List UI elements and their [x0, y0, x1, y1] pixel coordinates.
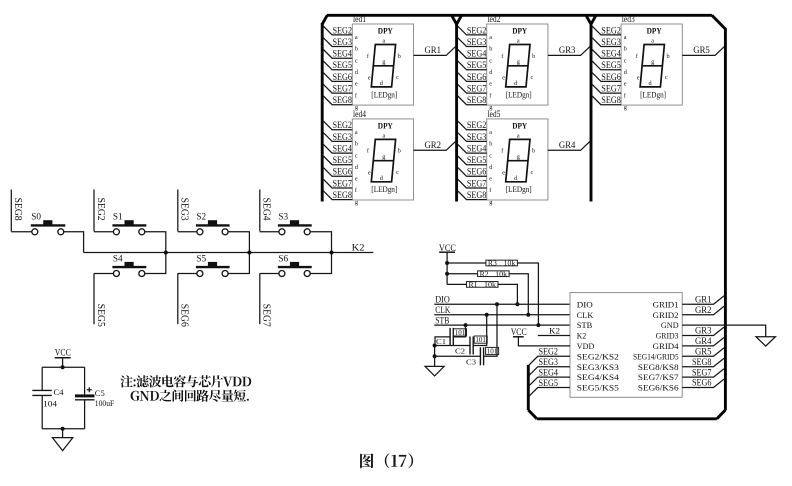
svg-text:c: c: [489, 57, 492, 64]
svg-text:b: b: [355, 46, 358, 53]
svg-text:DPY: DPY: [378, 122, 393, 131]
junction C2-CLK: [485, 313, 489, 317]
wire - led5 pin d net SEG5 bus tap: [458, 156, 487, 165]
svg-text:SEG4: SEG4: [539, 367, 559, 377]
note text line 1: [120, 375, 251, 387]
junction R3-STB: [536, 323, 540, 327]
svg-text:b: b: [532, 53, 535, 60]
svg-text:b: b: [398, 53, 401, 60]
bus segment mini bus left of IC bottom: [527, 365, 530, 410]
svg-text:e: e: [355, 81, 358, 88]
svg-text:DPY: DPY: [512, 122, 527, 131]
caption 图（17）: [360, 453, 413, 468]
bus segment bus1 vertical: [321, 23, 324, 202]
svg-text:SEG2: SEG2: [601, 25, 621, 35]
svg-text:[LEDgn]: [LEDgn]: [371, 185, 397, 194]
svg-text:101: 101: [455, 329, 466, 337]
svg-text:c: c: [665, 74, 668, 81]
wire - cap ground rail: [434, 346, 436, 367]
wire - keypad column net SEG3 vertical: [177, 190, 179, 232]
svg-text:10k: 10k: [484, 281, 497, 289]
svg-text:SEG8: SEG8: [467, 190, 487, 200]
wire - led1 pin c net SEG4 bus tap: [323, 50, 352, 59]
svg-text:GR4: GR4: [559, 140, 576, 150]
svg-text:S5: S5: [196, 253, 206, 263]
svg-text:c: c: [396, 169, 399, 176]
wire - led1 pin e net SEG6 bus tap: [323, 73, 352, 82]
wire - S3 to K2 junction: [310, 232, 331, 253]
wire - keypad column net SEG6 vertical: [177, 273, 179, 324]
svg-text:a: a: [517, 38, 520, 45]
wire - led3 pin c net SEG4 bus tap: [592, 50, 621, 59]
svg-text:SEG6: SEG6: [179, 304, 190, 327]
junction S1-S4 on K2: [164, 251, 168, 255]
svg-text:SEG6: SEG6: [467, 167, 487, 177]
junction C1-STB: [464, 323, 468, 327]
svg-text:SEG7: SEG7: [261, 304, 272, 327]
svg-text:GRID4: GRID4: [653, 341, 680, 351]
svg-text:DIO: DIO: [577, 299, 593, 309]
svg-text:S2: S2: [196, 212, 206, 222]
wire - SEG8 to S0: [11, 231, 32, 233]
wire - net GR1 IC pin to right bus: [682, 296, 724, 304]
svg-text:led5: led5: [487, 109, 500, 119]
wire - led2 pin g net SEG8 bus tap: [458, 96, 487, 105]
svg-text:a: a: [489, 34, 492, 41]
svg-text:GR3: GR3: [559, 45, 576, 55]
pushbutton S3: [278, 224, 312, 226]
capacitor C4 104: [41, 367, 43, 390]
junction S3-S6 on K2: [330, 251, 334, 255]
svg-text:SEG3: SEG3: [467, 132, 487, 142]
svg-text:SEG4: SEG4: [333, 49, 353, 59]
wire - keypad column net SEG5 vertical: [93, 273, 95, 324]
svg-text:a: a: [383, 133, 386, 140]
svg-text:g: g: [651, 59, 654, 66]
display module led3 body: [621, 24, 682, 105]
wire - led3 pin b net SEG3 bus tap: [592, 38, 621, 47]
svg-text:b: b: [532, 148, 535, 155]
wire - net SEG6 IC pin to right bus: [682, 379, 724, 387]
resistor R2 10k pull-up CLK: [447, 273, 478, 275]
svg-text:[LEDgn]: [LEDgn]: [506, 90, 532, 99]
wire - keypad column net SEG2 vertical: [93, 190, 95, 232]
capacitor C5 100uF electrolytic: [84, 367, 86, 394]
svg-text:VCC: VCC: [55, 347, 71, 357]
wire - S1 to K2 junction: [145, 232, 166, 253]
wire - led2 pin c net SEG4 bus tap: [458, 50, 487, 59]
svg-text:led2: led2: [487, 14, 500, 24]
wire - led4 pin f net SEG7 bus tap: [323, 179, 352, 188]
svg-text:e: e: [368, 75, 371, 82]
svg-text:c: c: [489, 152, 492, 159]
svg-text:10k: 10k: [495, 270, 508, 278]
IC U1 LED display driver body with pin labels: [570, 293, 682, 398]
wire - net GR2 IC pin to right bus: [682, 306, 724, 314]
svg-text:SEG5: SEG5: [333, 155, 353, 165]
wire - net CLK: [434, 314, 570, 316]
wire - led3 pin a net SEG2 bus tap: [592, 26, 621, 35]
svg-text:b: b: [624, 46, 627, 53]
wire - led1 pin b net SEG3 bus tap: [323, 38, 352, 47]
svg-text:SEG2: SEG2: [539, 347, 559, 357]
svg-text:SEG2: SEG2: [95, 198, 106, 221]
svg-text:SEG8: SEG8: [12, 198, 23, 221]
svg-text:a: a: [651, 38, 654, 45]
display module led2 body: [487, 24, 548, 105]
wire - keypad column net SEG4 vertical: [259, 190, 261, 232]
svg-text:SEG8/KS8: SEG8/KS8: [638, 362, 679, 372]
wire - S6 to K2 junction: [310, 253, 331, 274]
svg-text:R2: R2: [480, 270, 490, 278]
svg-text:SEG2: SEG2: [333, 25, 353, 35]
svg-text:SEG2: SEG2: [467, 25, 487, 35]
svg-text:SEG5: SEG5: [601, 60, 621, 70]
svg-text:DPY: DPY: [647, 27, 662, 36]
svg-text:SEG4: SEG4: [467, 143, 487, 153]
svg-text:SEG5: SEG5: [95, 304, 106, 327]
svg-text:c: c: [396, 74, 399, 81]
svg-text:a: a: [489, 129, 492, 136]
svg-text:K2: K2: [549, 326, 560, 336]
ground (caps): [425, 366, 444, 376]
wire - column to S1: [94, 231, 113, 233]
svg-text:g: g: [355, 199, 358, 206]
svg-text:GR3: GR3: [695, 326, 712, 336]
svg-text:SEG3: SEG3: [601, 37, 621, 47]
wire - led4 pin d net SEG5 bus tap: [323, 156, 352, 165]
wire - column to S6: [260, 273, 279, 275]
junction rail-C2: [433, 344, 437, 348]
wire - led1 pin a net SEG2 bus tap: [323, 26, 352, 35]
svg-text:GR1: GR1: [695, 295, 712, 305]
wire - ground rail to C3: [435, 355, 481, 357]
wire - led3 pin d net SEG5 bus tap: [592, 61, 621, 70]
junction VCC-R3: [445, 261, 449, 265]
svg-text:c: c: [531, 169, 534, 176]
bus segment bus3 vertical: [590, 23, 593, 202]
svg-text:GR1: GR1: [425, 45, 442, 55]
svg-text:SEG7/KS7: SEG7/KS7: [638, 372, 679, 382]
svg-text:a: a: [383, 38, 386, 45]
svg-text:SEG4/KS4: SEG4/KS4: [577, 372, 620, 382]
svg-text:e: e: [368, 169, 371, 176]
svg-text:SEG4: SEG4: [601, 49, 621, 59]
wire - net GR4 IC pin to right bus: [682, 338, 724, 346]
pushbutton S0: [31, 224, 66, 226]
ground (IC GND): [756, 337, 776, 346]
junction VCC-R2: [445, 272, 449, 276]
wire - led5 common pin net GR4 bus entry: [548, 142, 590, 151]
svg-text:CLK: CLK: [577, 310, 594, 320]
svg-text:STB: STB: [577, 320, 593, 330]
svg-text:SEG5/KS5: SEG5/KS5: [577, 383, 620, 393]
wire - IC GND pin: [682, 325, 766, 337]
svg-text:c: c: [355, 152, 358, 159]
wire - led3 common pin net GR5 bus entry: [682, 47, 724, 56]
wire - led2 pin a net SEG2 bus tap: [458, 26, 487, 35]
svg-text:SEG6/KS6: SEG6/KS6: [638, 383, 679, 393]
svg-text:C5: C5: [95, 389, 105, 398]
svg-text:b: b: [667, 53, 670, 60]
svg-text:100uF: 100uF: [95, 399, 115, 408]
svg-text:S1: S1: [113, 212, 123, 222]
wire - led4 pin c net SEG4 bus tap: [323, 144, 352, 153]
wire - net DIO: [434, 303, 570, 305]
svg-text:GR5: GR5: [693, 45, 710, 55]
svg-text:K2: K2: [352, 243, 365, 253]
svg-text:c: c: [624, 57, 627, 64]
svg-text:DPY: DPY: [512, 27, 527, 36]
wire - led2 pin e net SEG6 bus tap: [458, 73, 487, 82]
svg-text:e: e: [502, 169, 505, 176]
svg-text:SEG4: SEG4: [467, 49, 487, 59]
wire - net SEG3 IC tap to bottom bus: [529, 367, 570, 376]
ground (filter): [52, 438, 72, 451]
capacitor C3 101 on DIO: [479, 347, 481, 365]
wire - led4 common pin net GR2 bus entry: [414, 142, 456, 151]
svg-text:C2: C2: [455, 347, 465, 356]
svg-text:DPY: DPY: [378, 27, 393, 36]
svg-text:a: a: [355, 129, 358, 136]
svg-text:SEG5: SEG5: [539, 378, 559, 388]
wire - filter bottom rail: [42, 428, 84, 430]
svg-text:SEG6: SEG6: [333, 72, 353, 82]
svg-text:SEG6: SEG6: [333, 167, 353, 177]
svg-text:GR4: GR4: [695, 336, 712, 346]
note text line 2: [131, 390, 249, 402]
junction C3-DIO: [495, 302, 499, 306]
svg-text:SEG2: SEG2: [467, 120, 487, 130]
svg-text:b: b: [398, 148, 401, 155]
wire - C1 lead to ground rail: [435, 337, 450, 346]
junction rail-C3: [433, 354, 437, 358]
svg-text:a: a: [355, 34, 358, 41]
svg-text:VCC: VCC: [439, 243, 456, 253]
wire - net STB: [434, 324, 570, 326]
wire - led2 pin d net SEG5 bus tap: [458, 61, 487, 70]
wire - led5 pin e net SEG6 bus tap: [458, 168, 487, 177]
svg-text:SEG8: SEG8: [601, 95, 621, 105]
svg-text:DIO: DIO: [435, 295, 450, 305]
wire - keypad column net SEG8 vertical: [10, 190, 12, 232]
wire - column to S5: [178, 273, 197, 275]
wire - column to S3: [260, 231, 279, 233]
svg-text:SEG5: SEG5: [467, 60, 487, 70]
svg-text:SEG6: SEG6: [601, 72, 621, 82]
wire - led5 pin g net SEG8 bus tap: [458, 191, 487, 200]
svg-text:GR2: GR2: [695, 305, 712, 315]
wire - led4 pin a net SEG2 bus tap: [323, 121, 352, 130]
svg-text:SEG6: SEG6: [692, 378, 712, 388]
wire - ground stub: [62, 429, 64, 438]
bus segment right outer bus vertical: [724, 28, 727, 410]
wire - led2 common pin net GR3 bus entry: [548, 47, 590, 56]
svg-text:b: b: [489, 141, 492, 148]
wire - S5 to K2 junction: [228, 253, 249, 274]
wire - net GR5 IC pin to right bus: [682, 348, 724, 356]
svg-text:led3: led3: [622, 14, 635, 24]
svg-text:SEG4: SEG4: [261, 198, 272, 222]
svg-text:SEG3: SEG3: [333, 37, 353, 47]
wire - keypad column net SEG7 vertical: [259, 273, 261, 324]
svg-text:C1: C1: [436, 337, 446, 346]
pushbutton S4: [112, 266, 146, 268]
wire - net SEG4 IC tap to bottom bus: [529, 377, 570, 386]
svg-text:e: e: [637, 75, 640, 82]
svg-text:GRID2: GRID2: [653, 310, 679, 320]
svg-text:SEG6: SEG6: [467, 72, 487, 82]
svg-text:SEG3/KS3: SEG3/KS3: [577, 362, 620, 372]
svg-text:SEG7: SEG7: [333, 83, 353, 93]
wire - S2 to K2 junction: [228, 232, 249, 253]
svg-text:c: c: [531, 74, 534, 81]
wire - led2 pin b net SEG3 bus tap: [458, 38, 487, 47]
svg-text:SEG7: SEG7: [467, 178, 487, 188]
wire - net K2 horizontal: [84, 252, 374, 254]
svg-text:led1: led1: [353, 14, 366, 24]
wire - bus3 top peak diagonals: [586, 15, 596, 24]
svg-text:SEG8: SEG8: [692, 357, 712, 367]
wire - led1 pin d net SEG5 bus tap: [323, 61, 352, 70]
svg-text:SEG5: SEG5: [467, 155, 487, 165]
wire - top bus right corner diagonal: [712, 15, 726, 29]
capacitor C2 101 on CLK: [469, 337, 471, 355]
wire - led1 pin f net SEG7 bus tap: [323, 84, 352, 93]
svg-text:SEG3: SEG3: [467, 37, 487, 47]
wire - top bus left corner diagonal: [322, 15, 327, 24]
pushbutton S2: [196, 224, 230, 226]
wire - top bus horizontal: [327, 14, 712, 17]
svg-text:[LEDgn]: [LEDgn]: [506, 185, 532, 194]
svg-text:g: g: [382, 153, 385, 160]
junction VCC-rail: [61, 365, 65, 369]
svg-text:GRID3: GRID3: [656, 332, 679, 341]
wire - led3 pin f net SEG7 bus tap: [592, 84, 621, 93]
wire - net K2 to IC pin K2: [538, 335, 570, 337]
svg-text:S4: S4: [113, 253, 123, 263]
wire - net GR3 IC pin to right bus: [682, 327, 724, 335]
junction rail-ground: [61, 427, 65, 431]
svg-text:g: g: [517, 153, 520, 160]
svg-text:g: g: [489, 199, 492, 206]
svg-text:a: a: [624, 34, 627, 41]
svg-text:g: g: [517, 59, 520, 66]
wire - net SEG5 IC tap to bottom bus: [529, 388, 570, 397]
wire - led4 pin g net SEG8 bus tap: [323, 191, 352, 200]
svg-text:SEG7: SEG7: [692, 367, 712, 377]
wire - led5 pin c net SEG4 bus tap: [458, 144, 487, 153]
wire - S4 to K2 junction: [145, 253, 166, 274]
junction R2-CLK: [526, 313, 530, 317]
junction S2-S5 on K2: [247, 251, 251, 255]
wire - led3 pin g net SEG8 bus tap: [592, 96, 621, 105]
resistor R3 10k pull-up STB: [447, 262, 486, 264]
svg-text:SEG8: SEG8: [333, 95, 353, 105]
wire - filter top rail: [42, 366, 84, 368]
svg-text:SEG8: SEG8: [333, 190, 353, 200]
wire - led5 pin a net SEG2 bus tap: [458, 121, 487, 130]
svg-text:SEG7: SEG7: [601, 83, 621, 93]
wire - S0 to K2 line: [64, 232, 84, 253]
svg-text:e: e: [624, 81, 627, 88]
svg-text:K2: K2: [577, 332, 587, 341]
svg-text:STB: STB: [435, 316, 449, 326]
pushbutton S5: [196, 266, 230, 268]
display module led5 body: [487, 119, 548, 200]
svg-text:SEG2/KS2: SEG2/KS2: [577, 351, 619, 361]
svg-text:VCC: VCC: [511, 327, 527, 337]
svg-text:CLK: CLK: [435, 305, 450, 315]
wire - led1 common pin net GR1 bus entry: [414, 47, 456, 56]
svg-text:SEG3: SEG3: [539, 357, 559, 367]
svg-text:GND: GND: [661, 320, 679, 330]
svg-text:GR2: GR2: [425, 140, 442, 150]
bus segment bottom-left corner diagonal: [528, 410, 537, 419]
svg-text:R1: R1: [469, 281, 479, 289]
wire - led4 pin e net SEG6 bus tap: [323, 168, 352, 177]
wire - column to S2: [178, 231, 197, 233]
pushbutton S6: [278, 266, 312, 268]
svg-text:led4: led4: [353, 109, 366, 119]
resistor R1 10k pull-up DIO: [447, 283, 466, 285]
wire - led4 pin b net SEG3 bus tap: [323, 133, 352, 142]
svg-text:g: g: [382, 59, 385, 66]
svg-text:C4: C4: [54, 388, 64, 397]
svg-text:C3: C3: [466, 357, 476, 366]
svg-text:SEG8: SEG8: [467, 95, 487, 105]
wire - net SEG7 IC pin to right bus: [682, 369, 724, 377]
display module led4 body: [352, 119, 413, 200]
svg-text:SEG2: SEG2: [333, 120, 353, 130]
svg-text:SEG5: SEG5: [333, 60, 353, 70]
svg-text:S0: S0: [31, 212, 41, 222]
wire - led1 pin g net SEG8 bus tap: [323, 96, 352, 105]
svg-text:SEG4: SEG4: [333, 143, 353, 153]
wire - led5 pin b net SEG3 bus tap: [458, 133, 487, 142]
svg-text:c: c: [355, 57, 358, 64]
svg-text:GR5: GR5: [695, 347, 712, 357]
wire - led3 pin e net SEG6 bus tap: [592, 73, 621, 82]
svg-text:b: b: [489, 46, 492, 53]
svg-text:[LEDgn]: [LEDgn]: [371, 90, 397, 99]
svg-text:e: e: [489, 81, 492, 88]
svg-text:b: b: [355, 141, 358, 148]
wire - ground rail to C2: [435, 345, 470, 347]
wire - net SEG8 IC pin to right bus: [682, 358, 724, 366]
svg-text:e: e: [489, 176, 492, 183]
svg-text:SEG14/GRID5: SEG14/GRID5: [633, 351, 679, 361]
svg-text:a: a: [517, 133, 520, 140]
svg-text:S6: S6: [278, 253, 288, 263]
svg-text:10k: 10k: [503, 260, 516, 268]
svg-text:101: 101: [487, 348, 498, 356]
svg-text:GRID1: GRID1: [653, 299, 679, 309]
svg-text:e: e: [355, 176, 358, 183]
svg-text:S3: S3: [278, 212, 288, 222]
pushbutton S1: [112, 224, 146, 226]
svg-text:SEG7: SEG7: [467, 83, 487, 93]
svg-text:SEG3: SEG3: [179, 198, 190, 221]
bus segment bus2 vertical: [455, 23, 458, 202]
wire - bus2 top peak diagonals: [452, 15, 462, 24]
junction R1-DIO: [515, 302, 519, 306]
svg-text:g: g: [624, 104, 627, 111]
svg-text:R3: R3: [488, 260, 498, 268]
svg-text:101: 101: [475, 336, 486, 344]
svg-text:VDD: VDD: [577, 341, 595, 351]
wire - led5 pin f net SEG7 bus tap: [458, 179, 487, 188]
